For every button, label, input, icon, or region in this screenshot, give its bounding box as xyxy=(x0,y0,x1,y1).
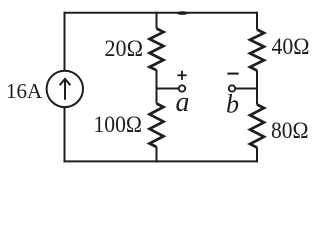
svg-text:b: b xyxy=(226,90,239,119)
label + polarity at node a xyxy=(177,71,186,80)
wire: node b stub xyxy=(235,88,258,90)
svg-text:a: a xyxy=(176,87,190,118)
wire: node a stub xyxy=(156,88,179,90)
resistor R1 20Ω (middle branch, top) xyxy=(150,12,164,90)
wire: left branch lower segment xyxy=(64,107,66,162)
wire: top rail from left branch to right branch xyxy=(64,12,259,14)
junction dot on top rail xyxy=(177,11,188,15)
wire: left branch upper segment xyxy=(64,12,66,71)
current source I1 (16 A, arrow up) xyxy=(47,71,83,107)
svg-text:80Ω: 80Ω xyxy=(271,118,309,143)
svg-text:100Ω: 100Ω xyxy=(94,112,143,137)
svg-text:16A: 16A xyxy=(6,79,43,103)
resistor R3 40Ω (right branch, top) xyxy=(250,12,264,90)
wire: bottom rail from left branch to right branch xyxy=(64,160,259,162)
terminal node a (open circle) xyxy=(179,85,185,91)
terminal node b (open circle) xyxy=(229,85,235,91)
resistor R4 80Ω (right branch, bottom) xyxy=(250,88,264,163)
svg-text:20Ω: 20Ω xyxy=(105,36,144,61)
svg-text:40Ω: 40Ω xyxy=(272,34,310,59)
resistor R2 100Ω (middle branch, bottom) xyxy=(150,88,164,163)
label − polarity at node b xyxy=(227,73,238,75)
